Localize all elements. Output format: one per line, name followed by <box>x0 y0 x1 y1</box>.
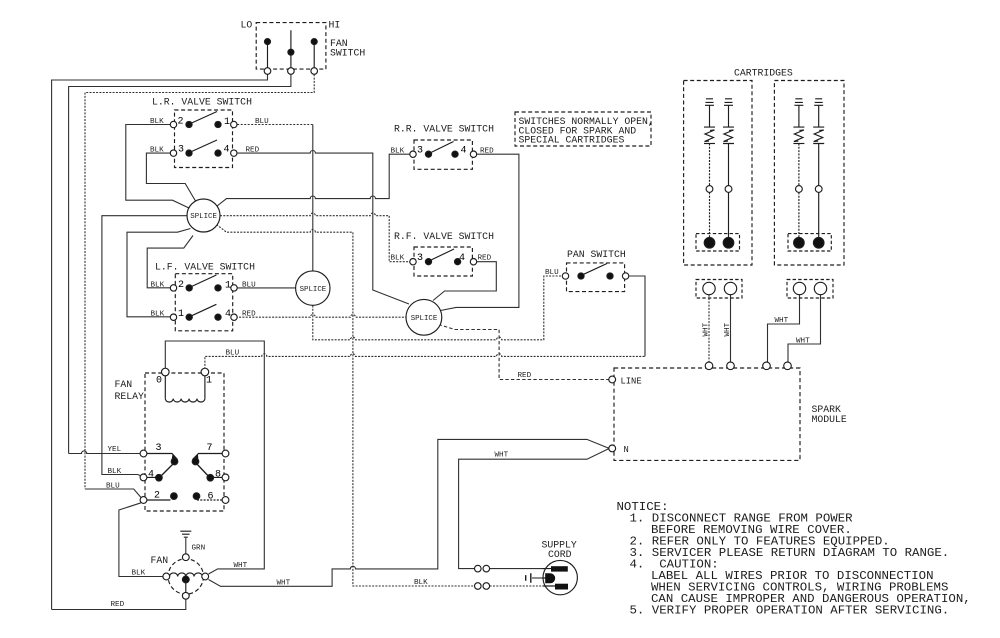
svg-text:RED: RED <box>111 601 125 609</box>
svg-text:3: 3 <box>417 146 423 157</box>
svg-text:SPLICE: SPLICE <box>411 315 438 323</box>
svg-text:HI: HI <box>329 20 341 31</box>
wire splice S1 to L.F. valve switch BLK bottom <box>127 229 191 317</box>
wire R.R. valve switch RED to splice S3 <box>441 154 519 310</box>
wire cartridge1 electrode A to spark module <box>708 295 710 362</box>
wire RED bus to fan motor bottom <box>52 599 186 610</box>
svg-text:BLU: BLU <box>242 282 256 290</box>
svg-text:RED: RED <box>480 148 494 156</box>
svg-text:BLK: BLK <box>151 282 165 290</box>
wire relay coil terminal 1 BLU to pan switch <box>205 354 645 376</box>
svg-text:BLK: BLK <box>414 579 428 587</box>
svg-text:YEL: YEL <box>108 446 122 454</box>
svg-text:4: 4 <box>224 145 230 156</box>
svg-text:CARTRIDGES: CARTRIDGES <box>734 68 793 79</box>
svg-text:4: 4 <box>225 309 231 320</box>
svg-text:WHT: WHT <box>234 562 248 570</box>
svg-text:2: 2 <box>154 491 160 502</box>
wire supply cord WHT to spark module N <box>459 449 609 569</box>
svg-text:BLK: BLK <box>108 468 122 476</box>
fan relay contacts pole 7-8 <box>192 450 229 481</box>
svg-text:2: 2 <box>178 280 184 291</box>
supply cord plug <box>543 560 578 594</box>
svg-text:3: 3 <box>178 145 184 156</box>
svg-text:7: 7 <box>207 443 213 454</box>
igniter electrode 1 (cartridge 1) <box>704 99 715 248</box>
splice S2 <box>296 271 330 305</box>
svg-text:1: 1 <box>178 309 184 320</box>
svg-text:4: 4 <box>148 470 154 481</box>
cartridge 2 inner terminal box <box>788 234 831 251</box>
svg-text:WHT: WHT <box>724 322 732 336</box>
svg-text:BLK: BLK <box>391 255 405 263</box>
wire fan switch mid to bus 2 <box>69 74 291 453</box>
spark module N terminal <box>609 445 616 452</box>
svg-text:RELAY: RELAY <box>115 391 145 402</box>
pan switch <box>562 263 629 292</box>
svg-text:BLK: BLK <box>150 118 164 126</box>
svg-text:3: 3 <box>156 443 162 454</box>
wire splice S2 down to pan switch BLU <box>313 276 564 340</box>
wire relay coil terminal 0 to fan WHT upper <box>165 341 264 574</box>
svg-text:R.R. VALVE SWITCH: R.R. VALVE SWITCH <box>394 124 494 135</box>
svg-text:5. VERIFY PROPER OPERATION AFT: 5. VERIFY PROPER OPERATION AFTER SERVICI… <box>630 604 950 618</box>
svg-text:1: 1 <box>224 117 230 128</box>
spark module box <box>609 362 800 460</box>
ground symbol above fan <box>180 531 191 537</box>
fan relay box <box>145 373 224 511</box>
svg-text:WHT: WHT <box>703 322 711 336</box>
svg-text:SPLICE: SPLICE <box>300 286 327 294</box>
L.R. valve switch <box>170 110 237 168</box>
splice S3 <box>406 299 442 335</box>
fan relay coil <box>162 368 209 402</box>
splice S1 <box>187 199 220 232</box>
svg-text:PAN SWITCH: PAN SWITCH <box>567 249 626 260</box>
R.F. valve switch <box>410 247 477 276</box>
svg-text:6: 6 <box>208 492 214 503</box>
wire fan WHT lower to spark module N <box>209 439 609 586</box>
wire L.F. valve switch RED to splice S3 <box>236 315 406 318</box>
svg-text:SPLICE: SPLICE <box>190 213 217 221</box>
svg-text:BLU: BLU <box>106 483 120 491</box>
wire BLU bus3 to relay terminal 2 <box>85 489 141 498</box>
svg-text:BLU: BLU <box>255 118 269 126</box>
wire cartridge1 electrode B to spark module <box>730 295 732 362</box>
svg-text:1: 1 <box>225 281 231 292</box>
R.R. valve switch <box>410 140 477 169</box>
wire L.F. valve switch BLU to splice S2 <box>236 287 296 289</box>
wire splice S3 to spark module LINE RED <box>439 325 609 380</box>
svg-text:WHT: WHT <box>277 580 291 588</box>
svg-text:FAN: FAN <box>151 555 169 566</box>
svg-text:WHT: WHT <box>495 452 509 460</box>
svg-text:WHT: WHT <box>775 317 789 325</box>
wire plug ground pin stub <box>532 577 545 579</box>
wire splice S1 to R.F. valve switch BLK <box>220 213 411 262</box>
svg-text:WHT: WHT <box>796 338 810 346</box>
svg-text:LINE: LINE <box>621 377 642 387</box>
chassis ground marker at plug <box>526 573 531 582</box>
svg-text:SWITCH: SWITCH <box>330 48 365 59</box>
svg-text:N: N <box>624 445 629 455</box>
svg-text:LO: LO <box>241 20 253 31</box>
svg-text:MODULE: MODULE <box>812 414 847 425</box>
spark module LINE terminal <box>609 376 616 383</box>
svg-text:RED: RED <box>518 372 532 380</box>
wire R.F. valve switch RED to splice S3 <box>433 262 496 301</box>
cartridge 1 inner terminal box <box>696 234 740 251</box>
wire splice S1 left to relay terminal 4 BLK <box>102 216 188 478</box>
wire YEL bus2 to relay terminal 3 <box>69 451 140 454</box>
svg-text:GRN: GRN <box>192 545 206 553</box>
fan relay contacts pole 3-4 <box>140 450 178 481</box>
svg-text:0: 0 <box>156 376 162 387</box>
igniter electrode 4 (cartridge 2) <box>813 99 824 248</box>
wire L.R. valve switch BLK top to splice S1 <box>126 125 190 209</box>
wire fan motor GRN to ground <box>185 538 187 554</box>
svg-text:BLU: BLU <box>545 269 559 277</box>
svg-text:4: 4 <box>461 146 467 157</box>
wire cartridge2 electrode B WHT to spark module <box>788 295 821 362</box>
igniter electrode 3 (cartridge 2) <box>793 99 804 248</box>
wire L.R. valve switch BLK bottom to splice S1 <box>146 153 195 201</box>
cartridges box 1 <box>684 81 752 266</box>
wire relay terminal 2 down to fan motor BLK <box>119 503 163 577</box>
wire splice S1 to L.F. valve switch BLK top <box>147 236 193 288</box>
svg-text:SPECIAL CARTRIDGES: SPECIAL CARTRIDGES <box>519 135 625 146</box>
igniter electrode 2 (cartridge 1) <box>723 99 734 248</box>
svg-text:RED: RED <box>246 147 260 155</box>
wire fan switch LO to left bus <box>52 74 268 609</box>
svg-text:BLK: BLK <box>150 147 164 155</box>
svg-text:8: 8 <box>215 470 221 481</box>
svg-text:1: 1 <box>206 376 212 387</box>
svg-text:L.F. VALVE SWITCH: L.F. VALVE SWITCH <box>155 262 255 273</box>
svg-text:4: 4 <box>459 253 465 264</box>
svg-text:2: 2 <box>178 117 184 128</box>
wire pan switch right to relay coil BLU <box>627 276 645 356</box>
cartridge 1 connector box <box>696 280 742 299</box>
svg-text:R.F. VALVE SWITCH: R.F. VALVE SWITCH <box>394 231 494 242</box>
wire L.R. valve switch RED to splice S3 <box>237 150 409 304</box>
wire cartridge2 electrode A WHT to spark module <box>768 295 800 362</box>
wire plug top prong to WHT connector <box>490 568 552 570</box>
cartridge 2 connector box <box>787 280 833 299</box>
inline connector WHT pair <box>475 565 490 589</box>
notice box SWITCHES NORMALLY OPEN <box>515 112 651 146</box>
svg-text:L.R. VALVE SWITCH: L.R. VALVE SWITCH <box>152 97 252 108</box>
svg-text:CORD: CORD <box>548 549 572 560</box>
svg-text:RED: RED <box>478 255 492 263</box>
wire fan switch HI to bus 3 <box>85 74 314 489</box>
inline connector BLK pair <box>475 583 482 590</box>
wire splice S1 to supply cord BLK <box>217 225 475 587</box>
svg-text:3: 3 <box>417 253 423 264</box>
fan switch box <box>256 23 326 75</box>
wire splice S1 to R.R. valve switch BLK <box>217 154 411 206</box>
cartridges box 2 <box>774 81 844 266</box>
wire BLU L.R. terminal 1 down to splice S2 <box>237 124 313 126</box>
L.F. valve switch <box>170 274 237 331</box>
fan relay contacts pole 2-6 <box>140 493 229 504</box>
svg-text:BLK: BLK <box>151 311 165 319</box>
fan motor <box>163 554 209 599</box>
svg-text:BLU: BLU <box>226 350 240 358</box>
svg-text:BLK: BLK <box>132 570 146 578</box>
svg-text:FAN: FAN <box>115 379 133 390</box>
wire supply BLK connector to plug lower prong <box>490 585 556 587</box>
svg-text:BLK: BLK <box>391 148 405 156</box>
svg-text:RED: RED <box>242 311 256 319</box>
